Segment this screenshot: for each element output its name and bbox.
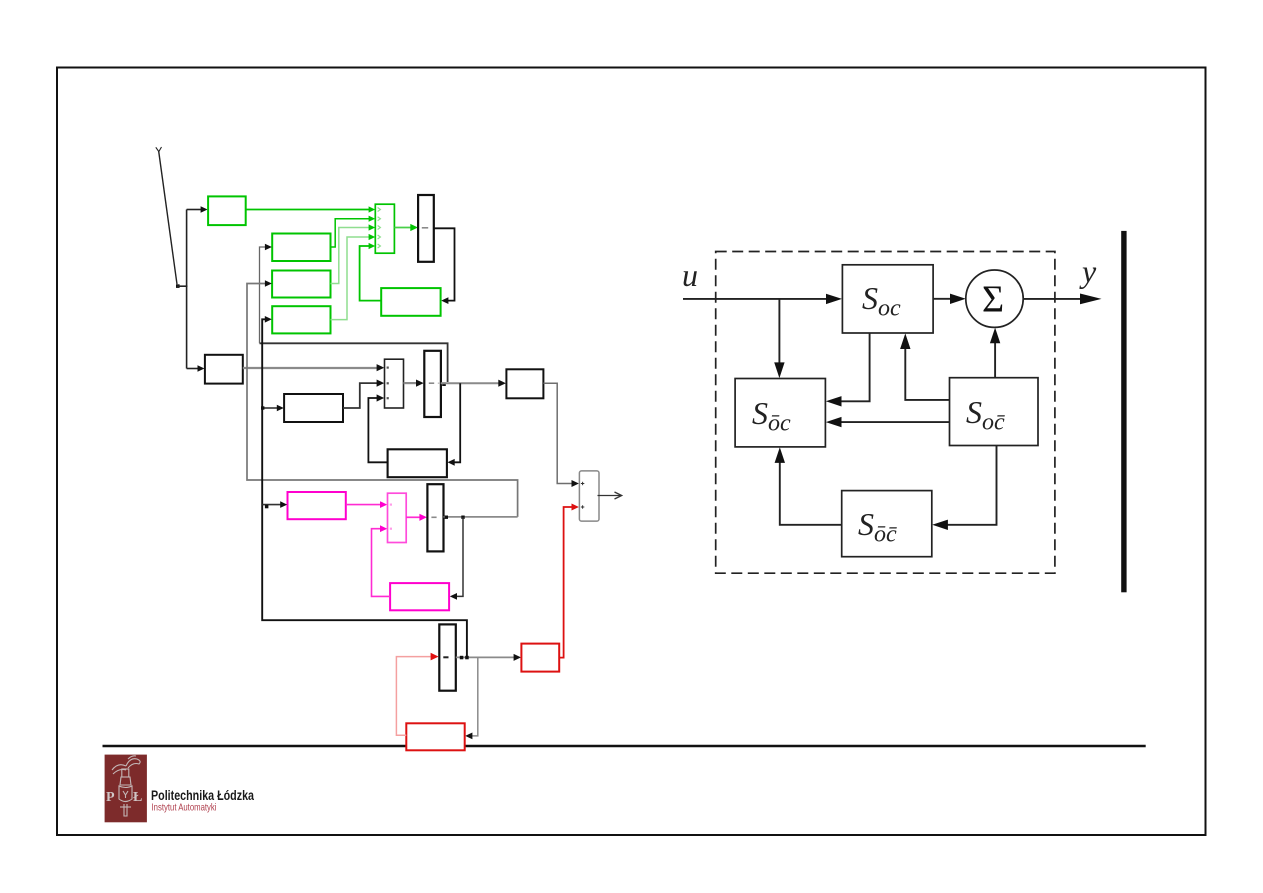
block5 (tall black sum block bottom): [439, 624, 456, 690]
wire D to mux1 in5 (green): [360, 246, 382, 301]
annotation diagonal line: [159, 151, 177, 285]
wire S_o_cbar top up into sigma: [994, 341, 996, 378]
block F: [284, 394, 343, 422]
block R1 (red): [521, 644, 559, 672]
junction dot block3 output: [445, 516, 448, 519]
wire B2 to mux1 in3 (pale green): [331, 228, 370, 284]
wire G out to mux2 in3: [368, 398, 387, 462]
wire block5-out distribution net up to B3, F, M1: [262, 319, 467, 656]
wire H out down to mux4 in1 (gray): [543, 383, 572, 483]
wire M1 out to mux3 in1 (magenta): [346, 504, 382, 506]
wire u into S_oc: [683, 298, 828, 300]
block M2 (magenta feedback): [390, 583, 449, 610]
wire S_o_cbar left into S_obar_c right: [840, 421, 950, 423]
logo emblem background: [105, 755, 147, 823]
junction dot F branch: [261, 406, 264, 409]
wire F out to mux2 in2: [343, 383, 377, 408]
block2 (tall black sum block): [424, 351, 441, 417]
block S_obar_c: [735, 379, 825, 447]
wire block2-out branch up/left to B1 (net): [260, 343, 448, 382]
wire S_o_cbar bottom into S_obar_cbar: [946, 446, 997, 525]
block D (green feedback subsystem): [381, 288, 440, 316]
wire net branch to M1: [262, 504, 281, 506]
mux1 (green multiplexer): [375, 204, 394, 253]
wire mux3 out to block3 (magenta): [406, 516, 420, 518]
wire block3-out branch down to M2: [456, 517, 463, 596]
wire S_oc bottom down-left into S_obar_c right: [840, 333, 870, 401]
junction dot annotation-net: [176, 284, 180, 288]
junction dot block3 branch: [461, 516, 464, 519]
wire R2 out to block5 (pale red): [396, 657, 430, 736]
wire block2-out branch down to G: [454, 383, 461, 462]
wire mux4 output terminator: [598, 495, 621, 497]
thick right bar: [1121, 231, 1126, 592]
junction dot block2 output: [442, 382, 446, 386]
mux4 port marks: [581, 482, 584, 509]
wire A to mux1 in1 (green): [246, 209, 370, 211]
svg-text:u: u: [682, 257, 698, 293]
wire block5 out to R1 (gray): [456, 656, 516, 658]
wire sigma to y output: [1023, 298, 1082, 300]
svg-text:P: P: [106, 790, 115, 805]
mux2 (black mux): [385, 359, 404, 408]
svg-text:Instytut Automatyki: Instytut Automatyki: [152, 802, 217, 814]
block1 (tall black transfer block): [418, 195, 434, 262]
wire mux2 out to block2 (gray): [404, 382, 418, 384]
mux3 (magenta mux): [388, 493, 407, 542]
block B3 (green): [272, 306, 330, 333]
junction dot block5 out b: [465, 656, 469, 660]
block2 inner mark: [429, 382, 434, 384]
block S_obar_cbar: [842, 491, 932, 557]
block G (feedback box): [388, 449, 447, 477]
wire B1 to mux1 in2 (green): [331, 219, 370, 247]
block H: [506, 369, 543, 398]
wire branch to block E: [187, 368, 199, 370]
block3 inner mark: [431, 516, 436, 518]
block R2 (red feedback, covers footer line): [406, 723, 464, 750]
wire block2 out to H (gray): [441, 382, 500, 384]
block B1 (green): [272, 234, 330, 262]
block3 (tall black sum block): [427, 484, 443, 551]
wire E out to mux2 in1 (gray): [243, 367, 379, 369]
junction dot M1 branch: [265, 505, 269, 509]
wire block3-out feedback net to B2 (gray, via y480): [247, 284, 518, 517]
mux1 port ticks: [378, 208, 381, 249]
wire B3 to mux1 in4 (pale green): [331, 237, 370, 320]
wire net branch to F: [262, 407, 278, 409]
wire S_o_cbar left up into S_oc bottom: [905, 347, 949, 400]
wire annotation to vertical net: [177, 285, 188, 287]
wire block3 out (gray) to y480 net: [444, 516, 518, 518]
footer separator line: [103, 745, 1146, 748]
wire block1 to D (black feedback): [434, 228, 455, 300]
wire net riser to B1: [260, 247, 267, 343]
wire R1 out up to mux4 in2 (red): [559, 507, 572, 658]
svg-text:Ł: Ł: [133, 790, 142, 805]
block1 inner mark: [422, 227, 428, 229]
wire u branch down to S_obar_c: [778, 299, 780, 364]
svg-text:Σ: Σ: [982, 279, 1004, 321]
junction dot block5 out a: [460, 656, 464, 660]
wire branch to block A: [187, 209, 202, 211]
block A (green source subsystem): [208, 196, 246, 225]
sigma summation circle: [966, 270, 1023, 327]
block E: [205, 355, 243, 384]
wire M2 out to mux3 in2 (magenta): [372, 529, 391, 597]
emblem torch and wings: [112, 756, 140, 816]
mux2 port dots: [387, 367, 389, 400]
block S_o_cbar: [950, 378, 1039, 446]
svg-text:y: y: [1079, 253, 1097, 289]
mux3 port dots: [390, 504, 392, 530]
dashed system boundary: [716, 252, 1055, 574]
wire mux1 out to block1 (green): [394, 227, 411, 229]
mux4 (output gray mux): [579, 471, 599, 521]
wire S_oc to sigma: [933, 298, 952, 300]
wire source vertical net x186: [186, 210, 188, 369]
block B2 (green): [272, 271, 330, 298]
wire block5-out branch down to R2 right input: [472, 657, 478, 736]
block S_oc: [842, 265, 933, 333]
block M1 (magenta): [288, 492, 346, 519]
wire S_obar_cbar left up into S_obar_c bottom: [780, 461, 842, 525]
annotation V tip: [156, 147, 162, 152]
open arrowhead terminator: [615, 492, 622, 499]
slide border frame: [57, 68, 1206, 836]
block5 inner minus mark: [443, 656, 448, 658]
